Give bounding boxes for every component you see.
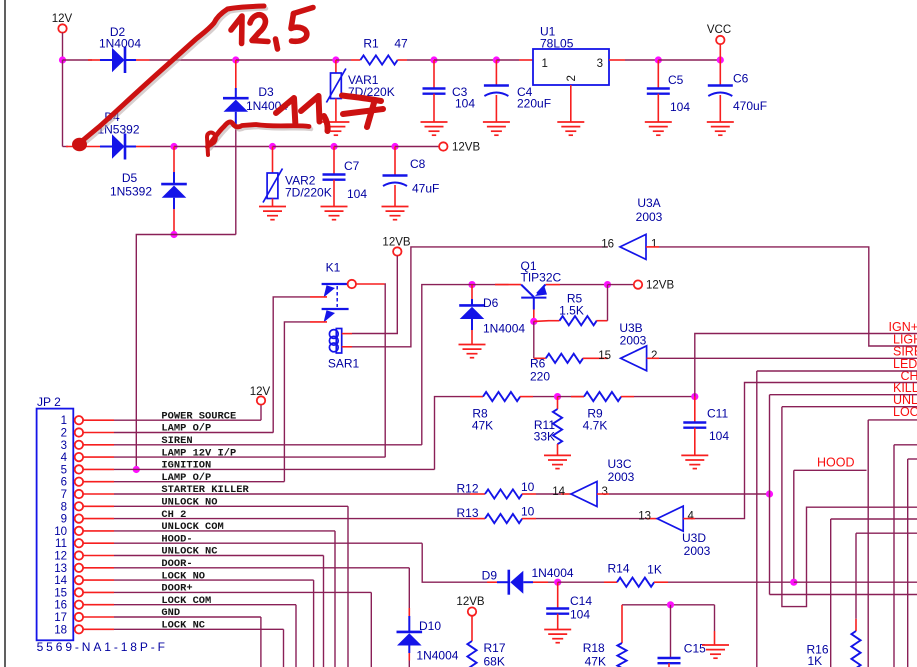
capacitor C7 xyxy=(323,175,346,180)
diode D9 xyxy=(510,571,523,594)
wire JP2 pin 12 UNLOCK NC xyxy=(114,555,324,557)
svg-text:8: 8 xyxy=(61,501,67,513)
ground R11 xyxy=(544,455,571,468)
svg-text:3: 3 xyxy=(602,486,608,498)
svg-text:220: 220 xyxy=(530,370,550,384)
pin lead D6 anode blue xyxy=(471,319,473,330)
wire Q1 base down xyxy=(533,321,535,358)
resistor R5 xyxy=(560,316,597,325)
svg-text:C14: C14 xyxy=(570,594,592,608)
svg-text:3: 3 xyxy=(597,58,603,70)
junction R5/12VB xyxy=(604,281,611,288)
wire KILLER net bottom to edge xyxy=(770,594,917,596)
wire LED net xyxy=(757,370,917,372)
wire right edge net A down xyxy=(893,445,895,667)
pin lead D10 anode xyxy=(408,646,410,654)
pin 17 circle JP2 xyxy=(75,613,83,621)
relay K1 contact arrow 2 xyxy=(324,310,336,322)
wire JP2 pin 15 down xyxy=(370,592,372,667)
wire to C8 xyxy=(334,146,395,148)
resistor R8 xyxy=(483,392,520,401)
pin lead VAR2 bottom xyxy=(272,199,274,207)
wire JP2 pin 2 LAMP O/P xyxy=(114,432,273,434)
pin lead JP2 pin 3 xyxy=(83,444,114,446)
svg-text:K1: K1 xyxy=(326,261,341,275)
svg-text:VCC: VCC xyxy=(707,24,731,36)
wire JP2 pin 16 LOCK COM xyxy=(114,604,296,606)
connector JP2 body xyxy=(37,409,74,641)
wire D10 down xyxy=(408,661,410,667)
pin lead D2 blue xyxy=(100,59,112,61)
pin lead D4 blue xyxy=(100,146,112,148)
svg-text:R12: R12 xyxy=(457,482,479,496)
svg-text:5569-NA1-18P-F: 5569-NA1-18P-F xyxy=(37,640,168,654)
svg-text:JP 2: JP 2 xyxy=(37,395,61,409)
wire JP2 pin 8 UNLOCK NO xyxy=(114,505,348,507)
wire U3B output to SIREN net xyxy=(659,357,917,359)
handwritten blob right P xyxy=(207,133,216,155)
wire right edge net C down xyxy=(830,519,832,667)
wire JP2 pin 11 HOOD- xyxy=(114,542,422,544)
handwritten blob left xyxy=(72,138,87,152)
svg-text:12: 12 xyxy=(54,551,67,563)
wire LOCK net xyxy=(868,419,917,421)
pin lead JP2 pin 18 xyxy=(83,628,114,630)
pin lead R1 left xyxy=(351,59,360,61)
pin lead JP2 pin 17 xyxy=(83,616,114,618)
port 12VB relay xyxy=(393,247,401,255)
pin lead R12 right xyxy=(522,493,536,495)
ground C15 net xyxy=(702,645,729,658)
wire Q1 to R5 node xyxy=(560,284,608,286)
junction VCC xyxy=(717,56,724,63)
pin lead JP2 pin 7 xyxy=(83,493,114,495)
pin lead C3 bottom xyxy=(433,94,435,122)
resistor R6 xyxy=(546,354,583,363)
svg-text:1N4004: 1N4004 xyxy=(99,37,141,51)
junction C8 xyxy=(391,143,398,150)
pin 11 circle JP2 xyxy=(75,539,83,547)
junction C7 xyxy=(330,143,337,150)
transistor Q1 TIP32C xyxy=(521,285,546,310)
svg-text:68K: 68K xyxy=(484,654,505,667)
svg-text:1K: 1K xyxy=(647,563,662,577)
pin lead JP2 pin 14 xyxy=(83,579,114,581)
pin lead R11 bottom xyxy=(557,444,559,455)
pin lead U1 pin3 xyxy=(609,59,625,61)
pin lead SAR1 bottom xyxy=(342,346,352,348)
svg-text:5: 5 xyxy=(61,464,67,476)
pin lead D4 anode xyxy=(66,146,100,148)
wire JP2 pin 6 LAMP O/P xyxy=(114,481,284,483)
svg-text:16: 16 xyxy=(54,600,67,612)
wire R13 to U3D xyxy=(536,518,647,520)
ground VAR2 xyxy=(259,207,286,220)
svg-text:2003: 2003 xyxy=(636,210,663,224)
wire top rail to D3 xyxy=(150,59,236,61)
relay K1 lower contact bar xyxy=(322,308,349,310)
ground C11 xyxy=(681,455,708,468)
ground VAR1 xyxy=(322,122,349,135)
wire JP2 pin 5 IGNITION xyxy=(114,468,435,470)
pin lead SAR1 top xyxy=(342,333,352,335)
pin lead JP2 pin 10 xyxy=(83,530,114,532)
svg-text:11: 11 xyxy=(55,538,67,550)
wire K1 contact2 to LAMP O/P pin6 xyxy=(284,322,310,482)
wire JP2 pin 14 LOCK NO xyxy=(114,579,314,581)
pin lead R1 right xyxy=(397,59,407,61)
junction D5 bottom xyxy=(170,231,177,238)
pin lead U3B out xyxy=(647,357,659,359)
pin lead U3D out xyxy=(683,518,695,520)
svg-text:TIP32C: TIP32C xyxy=(521,271,562,285)
svg-text:D6: D6 xyxy=(483,296,499,310)
pin lead D3 cathode blue xyxy=(235,88,237,98)
pin lead C8 bottom xyxy=(394,185,396,207)
op-amp U3D inverter xyxy=(657,506,683,531)
pin lead Q1 left xyxy=(495,284,521,286)
pin lead D9 anode xyxy=(523,581,533,583)
svg-text:12VB: 12VB xyxy=(456,596,484,608)
wire U3C out to KILLER net xyxy=(609,493,770,495)
svg-text:47: 47 xyxy=(394,37,408,51)
ground C8 xyxy=(382,207,409,220)
pin lead K1 contact 1 xyxy=(310,296,327,298)
scan border line xyxy=(4,0,6,667)
capacitor C3 xyxy=(423,89,446,94)
relay K1 contact arrow 1 xyxy=(324,285,336,297)
svg-text:2: 2 xyxy=(651,350,657,362)
pin 15 circle JP2 xyxy=(75,588,83,596)
ground C5 xyxy=(645,122,672,135)
pin lead R8 left xyxy=(470,396,483,398)
handwritten underline stroke 11.7 xyxy=(208,122,309,146)
pin lead D9 cathode xyxy=(487,581,497,583)
pin lead D4 cathode blue xyxy=(126,146,136,148)
svg-text:2003: 2003 xyxy=(684,544,711,558)
pin lead D10 cathode xyxy=(408,608,410,616)
junction VAR2 xyxy=(269,143,276,150)
pin lead D2 cathode xyxy=(136,59,150,61)
pin lead R6 right xyxy=(583,357,608,359)
wire R14 output to edge xyxy=(794,581,917,583)
junction U3C out xyxy=(766,490,773,497)
wire JP2 pin 4 LAMP 12V I/P xyxy=(114,456,385,458)
ground U1 xyxy=(557,122,584,135)
relay K1 common terminal circle xyxy=(348,280,356,288)
wire K1 common to LAMP 12V I/P pin4 xyxy=(384,284,387,457)
diode D5 xyxy=(162,186,187,198)
wire to VAR2 xyxy=(174,146,273,148)
svg-text:2: 2 xyxy=(566,75,578,81)
capacitor C14 xyxy=(546,609,569,614)
wire to C4 xyxy=(434,59,496,61)
pin 1 circle JP2 xyxy=(75,416,83,424)
wire JP2 pin 12 down xyxy=(323,556,325,667)
pin lead R6 left xyxy=(534,357,546,359)
pin lead JP2 pin 8 xyxy=(83,505,114,507)
svg-text:R17: R17 xyxy=(484,641,506,655)
wire to 12VB port xyxy=(395,146,439,148)
svg-text:1N4004: 1N4004 xyxy=(483,321,525,335)
wire R12 to U3C xyxy=(536,493,561,495)
svg-text:14: 14 xyxy=(54,575,67,587)
wire to R1 xyxy=(336,59,351,61)
junction HOOD net xyxy=(790,579,797,586)
svg-text:U3A: U3A xyxy=(637,196,660,210)
wire D3 down xyxy=(235,124,237,235)
pin lead R5 right xyxy=(597,320,608,322)
pin lead JP2 pin 11 xyxy=(83,542,114,544)
pin lead U3D in xyxy=(647,518,657,520)
svg-text:104: 104 xyxy=(570,608,590,622)
op-amp U3C inverter xyxy=(571,482,597,507)
junction C14 xyxy=(554,579,561,586)
svg-text:4: 4 xyxy=(688,510,695,522)
junction C3 xyxy=(430,56,437,63)
svg-text:47K: 47K xyxy=(585,654,606,667)
wire R11 to R9 xyxy=(558,396,585,398)
resistor R16 xyxy=(851,631,860,667)
resistor R14 xyxy=(617,578,654,587)
pin lead VAR2 top xyxy=(272,147,274,174)
pin 16 circle JP2 xyxy=(75,601,83,609)
wire U1 to C5 xyxy=(625,59,658,61)
wire KILLER net xyxy=(770,394,917,396)
pin lead D10 cathode blue xyxy=(408,616,410,632)
pin lead VAR1 top xyxy=(335,60,337,73)
svg-text:10: 10 xyxy=(54,526,67,538)
wire to Q1 xyxy=(466,284,509,286)
pin lead JP2 pin 13 xyxy=(83,567,114,569)
svg-text:13: 13 xyxy=(638,510,651,522)
ground C14 xyxy=(544,630,571,643)
svg-text:U3D: U3D xyxy=(682,531,706,545)
pin lead R8 right xyxy=(520,396,533,398)
pin lead U1 pin2 ground xyxy=(570,85,572,122)
ground D6 xyxy=(459,345,486,358)
pin lead JP2 pin 1 xyxy=(83,419,114,421)
pin 10 circle JP2 xyxy=(75,527,83,535)
pin lead C4 bottom xyxy=(495,95,497,122)
junction Q1 base xyxy=(530,318,537,325)
resistor R13 xyxy=(485,514,522,523)
wire R8 to R11 xyxy=(533,396,558,398)
pin lead R5 left xyxy=(534,320,549,323)
pin lead C8 top xyxy=(394,147,396,175)
svg-text:220uF: 220uF xyxy=(517,97,551,111)
svg-text:D3: D3 xyxy=(258,85,274,99)
pin lead R17 top xyxy=(471,616,473,641)
pin lead JP2 pin 5 xyxy=(83,468,114,470)
op-amp U3A inverter xyxy=(620,234,646,259)
pin lead D3 cathode xyxy=(235,60,237,88)
svg-text:C5: C5 xyxy=(668,73,684,87)
svg-text:U3C: U3C xyxy=(607,457,631,471)
wire JP2 pin 15 DOOR+ xyxy=(114,591,371,593)
wire HOOD net xyxy=(794,469,867,471)
pin lead D3 anode xyxy=(235,112,237,124)
wire HOOD- to D9 xyxy=(422,543,487,582)
svg-text:D5: D5 xyxy=(122,171,138,185)
svg-text:104: 104 xyxy=(709,429,729,443)
svg-text:1N4004: 1N4004 xyxy=(532,566,574,580)
pin lead D5 anode xyxy=(173,209,175,235)
pin lead C3 top xyxy=(433,60,435,88)
ground C6 xyxy=(707,122,734,135)
port 12V xyxy=(58,24,66,32)
svg-text:104: 104 xyxy=(670,100,690,114)
port 12VB rail xyxy=(439,142,447,150)
wire UNLOCK net jog xyxy=(782,407,917,607)
varistor VAR1 xyxy=(331,73,342,99)
wire DOOR- to D10 xyxy=(408,568,410,608)
port 12V bottom xyxy=(257,396,265,404)
pin lead JP2 pin 4 xyxy=(83,456,114,458)
svg-text:1.5K: 1.5K xyxy=(559,304,584,318)
pin lead D6 cathode xyxy=(471,285,473,299)
svg-text:104: 104 xyxy=(455,97,475,111)
handwritten stroke shadow xyxy=(84,9,311,149)
pin lead D5 anode blue xyxy=(173,198,175,209)
pin 5 circle JP2 xyxy=(75,465,83,473)
svg-text:R6: R6 xyxy=(530,357,546,371)
wire top rail xyxy=(63,59,93,61)
pin lead ground xyxy=(714,631,716,645)
junction C15 xyxy=(667,601,674,608)
pin lead U1 pin1 xyxy=(519,59,533,61)
svg-text:C6: C6 xyxy=(733,72,749,86)
capacitor C5 xyxy=(647,89,670,94)
svg-text:4.7K: 4.7K xyxy=(583,419,608,433)
pin 13 circle JP2 xyxy=(75,564,83,572)
port VCC xyxy=(716,36,724,44)
wire HOOD net down xyxy=(793,470,795,582)
wire K1 contact1 to LAMP O/P pin2 xyxy=(273,297,310,433)
svg-text:2: 2 xyxy=(61,428,67,440)
pin lead JP2 pin 12 xyxy=(83,555,114,557)
wire U3A output to LIGHT net xyxy=(659,247,917,346)
pin lead C15 bottom xyxy=(668,663,670,667)
svg-text:6: 6 xyxy=(61,477,67,489)
svg-text:17: 17 xyxy=(54,612,67,624)
junction D6 xyxy=(468,281,475,288)
pin lead U3A out xyxy=(646,246,659,248)
wire JP2 pin 8 down xyxy=(347,506,349,667)
pin 9 circle JP2 xyxy=(75,514,83,522)
svg-text:1: 1 xyxy=(651,239,657,251)
diode D4 xyxy=(112,134,125,159)
pin lead Q1 right xyxy=(545,284,560,286)
pin lead R9 left xyxy=(571,396,584,398)
wire to U1 xyxy=(496,59,519,61)
pin lead JP2 pin 16 xyxy=(83,604,114,606)
wire JP2 pin 17 down xyxy=(260,617,262,667)
handwritten stroke 12.5 lead-in xyxy=(82,6,264,141)
wire right edge net D xyxy=(856,532,917,534)
svg-text:D10: D10 xyxy=(419,619,441,633)
wire JP2 pin 10 UNLOCK COM xyxy=(114,530,335,532)
wire right edge net B down xyxy=(907,459,909,667)
wire D4 to D5 junction xyxy=(150,146,174,148)
junction D5 top xyxy=(170,143,177,150)
pin lead U3C in xyxy=(561,493,571,495)
svg-text:C8: C8 xyxy=(410,157,426,171)
wire R9 to C11 xyxy=(634,396,695,398)
wire right edge net B xyxy=(908,458,917,460)
varistor VAR2 xyxy=(267,173,278,199)
resistor R18 xyxy=(617,643,626,667)
pin lead D10 anode red xyxy=(408,653,410,661)
pin 18 circle JP2 xyxy=(75,625,83,633)
wire R14 output xyxy=(668,581,794,583)
svg-text:18: 18 xyxy=(54,624,67,636)
ground C4 xyxy=(483,122,510,135)
svg-text:104: 104 xyxy=(347,187,367,201)
pin 12 circle JP2 xyxy=(75,551,83,559)
svg-text:16: 16 xyxy=(601,239,614,251)
svg-text:R14: R14 xyxy=(607,562,629,576)
wire VCC xyxy=(719,44,721,60)
wire top rail to VAR1 xyxy=(236,59,336,61)
svg-text:10: 10 xyxy=(521,480,535,494)
pin lead R5 xyxy=(549,320,560,322)
pin lead D6 anode xyxy=(471,330,473,345)
svg-text:2003: 2003 xyxy=(608,470,635,484)
svg-text:1N4004: 1N4004 xyxy=(416,648,458,662)
pin lead D4 cathode xyxy=(136,146,150,148)
pin lead D5 cathode xyxy=(173,147,175,173)
pin lead R11 top xyxy=(557,397,559,409)
pin lead D5 cathode blue xyxy=(173,172,175,184)
svg-text:R1: R1 xyxy=(363,37,379,51)
resistor R12 xyxy=(485,489,522,498)
pin 3 circle JP2 xyxy=(75,441,83,449)
pin lead C6 bottom xyxy=(719,95,721,122)
wire R1 to C3 xyxy=(407,59,434,61)
wire LOCK net down xyxy=(867,420,869,667)
relay K1 dashed link xyxy=(336,286,338,307)
svg-text:SAR1: SAR1 xyxy=(328,357,360,371)
svg-text:47K: 47K xyxy=(472,419,493,433)
diode D10 xyxy=(397,633,422,645)
wire JP2 pin 17 GND xyxy=(114,616,261,618)
junction C5 xyxy=(655,56,662,63)
pin 4 circle JP2 xyxy=(75,453,83,461)
svg-text:7: 7 xyxy=(61,489,67,501)
junction C11 xyxy=(691,393,698,400)
wire U3D output to CH net xyxy=(695,383,917,519)
pin lead R9 right xyxy=(621,396,634,398)
pin lead K1 contact 2 xyxy=(310,321,327,323)
pin lead D6 cathode blue xyxy=(471,299,473,306)
wire R18 C15 net xyxy=(622,604,715,606)
wire to C6 xyxy=(658,59,720,61)
wire SIREN pin3 up to Q1 rail xyxy=(422,285,466,445)
pin 7 circle JP2 xyxy=(75,490,83,498)
svg-text:47uF: 47uF xyxy=(412,182,439,196)
wire to C7 xyxy=(273,146,335,148)
pin lead C14 top xyxy=(557,582,559,608)
pin lead R13 left xyxy=(470,518,485,520)
pin lead R18 top xyxy=(621,605,623,643)
pin lead R14 right xyxy=(654,581,668,583)
pin lead R12 left xyxy=(470,493,485,495)
pin lead C5 bottom xyxy=(657,94,659,122)
svg-text:1K: 1K xyxy=(808,654,823,667)
wire C11 node to IGN+ net xyxy=(695,334,917,397)
wire R5 to 12VB xyxy=(607,285,609,321)
